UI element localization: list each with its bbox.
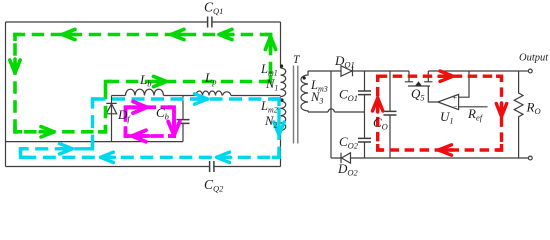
red loop corner pieces bbox=[378, 76, 502, 150]
magenta arrow right down bbox=[168, 120, 180, 135]
cyan arrow bottom left 1 bbox=[217, 152, 231, 162]
wire secondary top bbox=[308, 70, 409, 72]
wire outer box top rail bbox=[6, 21, 281, 23]
svg-text:Lb: Lb bbox=[139, 72, 151, 89]
wire CO branch bbox=[389, 71, 391, 158]
svg-text:Lm2: Lm2 bbox=[260, 99, 278, 115]
wire CO1/CO2 branch bbox=[364, 71, 366, 158]
wire outer box bottom rail bbox=[6, 166, 281, 168]
wire hop secondary bbox=[328, 109, 335, 112]
svg-text:+: + bbox=[452, 93, 457, 102]
wire rectifier left rail bbox=[330, 71, 332, 158]
wire output top to terminal bbox=[519, 70, 529, 72]
svg-text:CO: CO bbox=[373, 115, 388, 132]
svg-text:Output: Output bbox=[519, 53, 549, 64]
node phase dot N2 bbox=[280, 98, 283, 101]
svg-text:Ref: Ref bbox=[467, 106, 484, 123]
node output top terminal bbox=[528, 69, 532, 73]
capacitor CO1 bbox=[358, 91, 371, 95]
svg-text:T: T bbox=[293, 54, 301, 66]
cyan loop corner pieces bbox=[21, 99, 280, 157]
wire outer box left rail bbox=[5, 22, 7, 167]
wire secondary middle bbox=[308, 111, 365, 113]
wire rectifier bottom rail bbox=[331, 157, 530, 159]
green arrow bottom right bbox=[40, 127, 54, 137]
cyan arrow right down bbox=[274, 121, 284, 135]
red arrow top right bbox=[439, 71, 453, 81]
diode DO1 bbox=[341, 66, 353, 76]
cyan arrow main right bbox=[193, 94, 208, 104]
node phase dot N1 bbox=[280, 64, 283, 67]
node output bottom terminal bbox=[528, 156, 532, 160]
svg-text:CQ1: CQ1 bbox=[204, 0, 223, 16]
wire hop primary bbox=[223, 92, 232, 96]
svg-text:CO2: CO2 bbox=[339, 134, 359, 151]
wire Df branch bbox=[111, 96, 113, 142]
wire op-amp plus input feedback bbox=[459, 71, 469, 97]
node phase dot N3 bbox=[303, 76, 306, 79]
svg-text:DO1: DO1 bbox=[334, 53, 355, 70]
svg-text:N2: N2 bbox=[264, 114, 277, 130]
green arrow mid right bbox=[152, 76, 167, 86]
cyan arrow lower-left right bbox=[58, 144, 73, 154]
red arrow left up bbox=[373, 98, 383, 112]
green arrow top 2 bbox=[171, 29, 185, 39]
capacitor CO bbox=[384, 111, 397, 115]
svg-text:−: − bbox=[453, 102, 458, 111]
green loop corner pieces bbox=[15, 35, 271, 132]
wire outer box right rail / transformer primary lead bbox=[280, 22, 282, 167]
capacitor CQ1 bbox=[208, 17, 212, 28]
svg-text:Q5: Q5 bbox=[411, 86, 425, 103]
svg-text:Lp: Lp bbox=[204, 70, 216, 87]
diode Df bbox=[106, 103, 116, 113]
svg-text:RO: RO bbox=[526, 100, 541, 117]
magenta arrow bottom left bbox=[132, 130, 149, 142]
transistor Q5 body arrow bbox=[415, 81, 422, 85]
wire op-amp output to gate bbox=[428, 86, 438, 102]
loop magenta Cb resonant current bbox=[126, 107, 175, 136]
loop cyan N2 current bbox=[21, 99, 280, 157]
winding N1 Lm1 bbox=[281, 68, 286, 97]
green arrow top 1 bbox=[62, 29, 76, 39]
winding N2 Lm2 bbox=[281, 101, 286, 131]
loop green magnetizing current bbox=[15, 35, 271, 132]
diode DO2 bbox=[341, 153, 351, 163]
cyan arrow bottom left 2 bbox=[101, 152, 115, 162]
svg-text:N1: N1 bbox=[265, 77, 278, 93]
green arrow top 3 bbox=[219, 29, 233, 39]
svg-text:U1: U1 bbox=[440, 109, 454, 126]
wire Q5 drain to output bbox=[428, 70, 518, 72]
magenta arrow top right bbox=[130, 102, 147, 114]
red arrow right down bbox=[496, 103, 506, 117]
red arrow bottom left bbox=[439, 145, 453, 155]
svg-text:DO2: DO2 bbox=[337, 161, 359, 178]
wire middle rail bbox=[6, 141, 184, 143]
capacitor CQ2 bbox=[210, 161, 214, 172]
green arrow right up bbox=[265, 37, 275, 51]
transformer core bbox=[294, 66, 298, 144]
magenta loop corner pieces bbox=[126, 107, 175, 136]
resistor RO bbox=[514, 71, 523, 158]
transistor Q5 gate bar bbox=[408, 85, 430, 87]
inductor Lp bbox=[196, 91, 222, 95]
capacitor Cb bbox=[177, 120, 190, 124]
svg-text:CQ2: CQ2 bbox=[204, 177, 224, 194]
capacitor CO2 bbox=[358, 138, 371, 142]
op-amp U1 bbox=[438, 94, 459, 109]
wire main primary horizontal bbox=[112, 95, 281, 97]
wire Cb branch bbox=[182, 96, 184, 142]
svg-text:CO1: CO1 bbox=[339, 87, 358, 104]
inductor Lb bbox=[126, 89, 164, 95]
transistor Q5 stubs and channel bbox=[405, 71, 433, 82]
green arrow left down bbox=[10, 59, 20, 73]
winding N3 Lm3 secondary bbox=[301, 71, 308, 112]
wire Ref bbox=[459, 106, 488, 108]
svg-text:Df: Df bbox=[117, 107, 131, 124]
loop red output current bbox=[378, 76, 502, 150]
